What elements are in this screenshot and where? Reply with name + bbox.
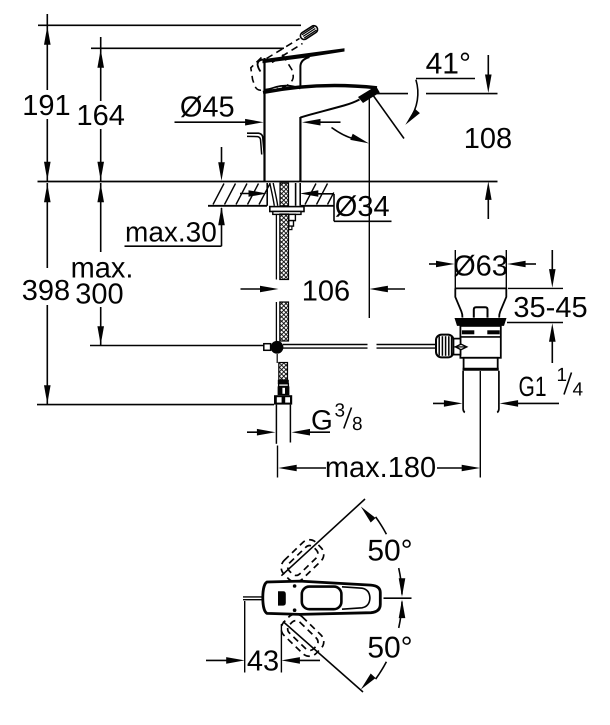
svg-text:1: 1	[557, 365, 568, 386]
valve upper body	[460, 326, 500, 358]
spout angle diagonal	[373, 95, 405, 139]
G3/8 connector body	[279, 384, 289, 387]
pop-up rod ball joint	[271, 341, 284, 354]
dimension 191 vertical line	[46, 14, 48, 25]
svg-text:3: 3	[335, 401, 346, 422]
50° lower arc	[399, 602, 402, 628]
top view: dashed handle lower (rotated)	[277, 610, 327, 660]
leader Ø45 with arrows	[175, 121, 254, 123]
svg-text:398: 398	[22, 275, 70, 307]
svg-text:108: 108	[464, 123, 512, 155]
faucet body right edge	[299, 117, 301, 181]
dimension 164 vertical line	[100, 37, 102, 101]
dimension 398 vertical line	[46, 183, 48, 268]
countertop hatching	[213, 184, 224, 205]
centerline below pipe	[277, 446, 279, 478]
spout tip extension line	[368, 96, 370, 319]
dimension max.300 vertical line	[100, 183, 102, 252]
countertop bottom line left	[208, 205, 267, 207]
rod end cap left of ball	[264, 344, 271, 351]
threaded shank crosshatch	[280, 183, 289, 206]
top view: pivot dots	[293, 584, 297, 588]
svg-text:35-45: 35-45	[513, 292, 587, 324]
handle neck right edge	[300, 57, 309, 88]
G3/8 tail pipe	[275, 405, 277, 444]
50° upper diagonal	[281, 499, 365, 576]
spout tip level line	[371, 93, 408, 95]
clamp block	[454, 339, 461, 355]
collar nut	[464, 358, 498, 370]
svg-text:G: G	[311, 405, 333, 436]
hose segment C below ball	[276, 354, 278, 363]
top view: centerline	[384, 597, 412, 599]
50° lower diagonal	[283, 622, 363, 693]
square nub	[474, 307, 488, 317]
flexible hose curves in hole	[270, 183, 275, 206]
cartridge dome under handle	[265, 86, 301, 92]
top view: lever stub	[243, 596, 265, 598]
top reference line (handle top level)	[38, 24, 301, 26]
spout top edge	[263, 86, 377, 93]
svg-text:164: 164	[77, 100, 125, 132]
countertop top surface line	[38, 181, 498, 183]
countertop bottom line right	[301, 205, 334, 207]
tail pipe G1 1/4	[463, 371, 465, 413]
pop-up pull rod behind body	[247, 133, 264, 154]
svg-text:50°: 50°	[367, 535, 412, 568]
svg-text:191: 191	[22, 90, 70, 122]
pipe centerline	[479, 371, 481, 478]
mounting nut steps	[273, 212, 301, 215]
dimension max.30	[221, 147, 223, 170]
dimension 35-45	[508, 287, 563, 289]
hose segment A below counter	[275, 214, 277, 280]
dimension Ø34 arrows	[240, 193, 258, 195]
top view: handle outline	[302, 587, 342, 610]
svg-text:50°: 50°	[367, 632, 412, 665]
hose ferrule	[278, 380, 289, 384]
washer under counter	[270, 207, 304, 212]
step line	[464, 357, 499, 359]
mounting hole edges	[266, 183, 268, 206]
svg-text:max.30: max.30	[125, 217, 217, 248]
svg-text:G1: G1	[519, 371, 547, 402]
svg-text:41°: 41°	[426, 47, 471, 80]
svg-text:4: 4	[573, 380, 584, 401]
top view: dashed handle upper (rotated)	[277, 536, 327, 586]
svg-text:8: 8	[352, 414, 363, 435]
dimension 106	[241, 288, 271, 290]
reference line at G3/8 connector level	[37, 404, 274, 406]
rosette disc (dark)	[455, 318, 507, 326]
spout aerator tip (dark)	[358, 86, 380, 103]
svg-text:106: 106	[302, 276, 350, 308]
reference line (spout/body top level)	[91, 47, 284, 49]
top view: lever slot (dark)	[278, 591, 286, 605]
top view: spout inner line	[342, 587, 370, 609]
horizontal pop-up rod	[283, 344, 368, 346]
dimension G3/8 arrows	[247, 431, 266, 433]
G3/8 hex nut	[274, 395, 292, 404]
set screw	[456, 344, 467, 350]
50° upper arc	[376, 517, 387, 534]
svg-text:Ø34: Ø34	[335, 191, 390, 223]
dimension G1 1/4 arrows	[433, 402, 453, 404]
faucet body left edge	[263, 58, 265, 181]
raised handle blade dashed lines	[267, 39, 300, 59]
svg-text:300: 300	[75, 279, 123, 311]
hose segment B (after break)	[275, 302, 277, 341]
reference line at pop-up rod level	[90, 345, 271, 347]
handle lever blade (solid)	[263, 48, 345, 63]
svg-text:Ø45: Ø45	[180, 92, 235, 124]
spout underside curve	[300, 100, 359, 118]
raised handle tip cap (dashed position)	[299, 24, 319, 41]
drain flange Ø63	[455, 288, 506, 317]
label box for O34	[333, 194, 335, 221]
svg-text:max.180: max.180	[325, 452, 436, 484]
knurled knob	[436, 335, 454, 358]
svg-text:Ø63: Ø63	[453, 250, 508, 282]
svg-text:43: 43	[247, 645, 279, 677]
raised handle body dashed outline	[251, 58, 278, 91]
handle rear curl	[258, 60, 263, 72]
41° arc	[410, 80, 418, 120]
dimension Ø63	[454, 250, 456, 290]
dimension 43	[244, 601, 246, 673]
top view: faucet body outline	[263, 581, 381, 614]
dimension max.180	[278, 465, 297, 472]
flow direction arc arrow	[332, 128, 355, 139]
dimension 108	[487, 55, 489, 80]
